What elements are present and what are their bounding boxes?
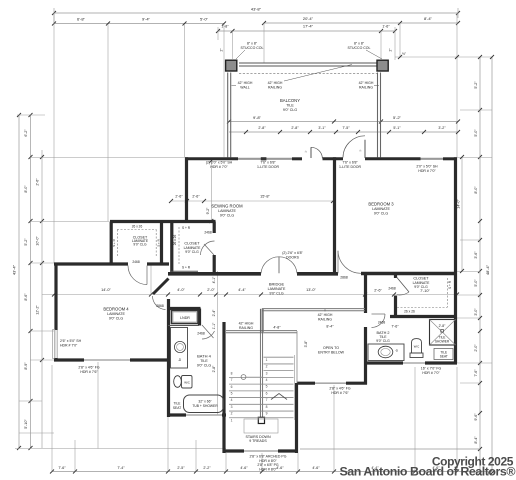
svg-text:HDR # 7'0": HDR # 7'0" <box>418 169 436 173</box>
svg-text:9: 9 <box>266 412 268 416</box>
railing A bridge east-west y=309.5 <box>262 308 365 310</box>
balcony door bedroom3 leaf+arc <box>364 140 366 158</box>
svg-text:2: 2 <box>231 412 233 416</box>
dim: top tier2 left 6'-8" 9'-4" 5'-0" <box>54 23 224 25</box>
svg-text:LAMINATE: LAMINATE <box>268 287 286 291</box>
svg-text:2'-6": 2'-6" <box>36 178 40 186</box>
laundry east wall <box>198 309 201 326</box>
svg-text:5'-0": 5'-0" <box>474 129 478 137</box>
stair west / bath4 east wall <box>222 322 225 453</box>
svg-text:2'-0": 2'-0" <box>474 344 478 352</box>
svg-text:W/C: W/C <box>414 345 419 349</box>
closet door arc 2468 <box>397 277 410 292</box>
svg-text:TILE: TILE <box>200 359 208 363</box>
svg-text:2468: 2468 <box>378 321 386 325</box>
svg-text:9'-8": 9'-8" <box>253 115 262 120</box>
svg-text:1: 1 <box>266 358 268 362</box>
bottom extension lines <box>51 365 53 472</box>
svg-text:1-LITE DOOR: 1-LITE DOOR <box>257 165 279 169</box>
svg-text:WALL: WALL <box>240 85 249 89</box>
bedroom3 closet rod dashed <box>397 307 447 309</box>
extension lines from top dims <box>107 24 109 221</box>
svg-text:1'-6": 1'-6" <box>382 25 390 29</box>
svg-text:8: 8 <box>231 371 233 375</box>
svg-text:S + R: S + R <box>182 266 191 270</box>
dim: balcony lower tier 9'-8" 5'-2" y=121.5 <box>229 121 458 123</box>
svg-text:14'-0": 14'-0" <box>101 288 111 292</box>
svg-text:HDR # 7'6": HDR # 7'6" <box>331 391 349 395</box>
dim: balcony 1'-8" 17'-4" 1'-6" <box>218 30 395 32</box>
sewing closet door arc <box>201 241 215 255</box>
svg-text:9'0" CLG: 9'0" CLG <box>374 211 389 215</box>
svg-text:3'-6": 3'-6" <box>474 251 478 259</box>
svg-text:BEDROOM 3: BEDROOM 3 <box>368 202 394 207</box>
svg-text:HDR # 8'0": HDR # 8'0" <box>259 467 277 471</box>
bath2 door arc 2468 <box>372 314 386 328</box>
svg-text:3'-8": 3'-8" <box>304 340 308 348</box>
window in y=383 wall <box>315 382 346 384</box>
bedroom4 south window <box>84 359 130 361</box>
balcony railing lines <box>239 62 377 64</box>
svg-text:2'-6": 2'-6" <box>374 289 382 293</box>
interior dim line sewing y=201 <box>171 200 333 202</box>
svg-text:2468: 2468 <box>388 287 396 291</box>
svg-text:HDR # 7'0": HDR # 7'0" <box>60 343 78 347</box>
stucco column right <box>377 60 388 71</box>
balcony side wall right <box>377 73 379 158</box>
svg-text:12'-2": 12'-2" <box>36 305 40 315</box>
svg-text:7'-6": 7'-6" <box>58 466 66 470</box>
svg-text:9'-6": 9'-6" <box>474 413 478 421</box>
interior dim line y=294.5 <box>42 294 457 296</box>
svg-text:SEAT: SEAT <box>440 355 448 359</box>
svg-text:9'0" CLG: 9'0" CLG <box>269 291 284 295</box>
left closet east wall <box>160 223 163 263</box>
house east wall <box>454 157 457 363</box>
svg-text:S + R: S + R <box>112 238 116 246</box>
svg-text:9'-2": 9'-2" <box>206 207 210 215</box>
railing B vertical x=262 <box>260 309 262 332</box>
svg-text:32" x 66": 32" x 66" <box>198 399 212 403</box>
svg-text:BATH 4: BATH 4 <box>197 354 211 359</box>
svg-text:2'-6": 2'-6" <box>192 195 200 199</box>
bottom dim tier <box>52 471 492 473</box>
svg-text:2'-8": 2'-8" <box>439 324 447 328</box>
svg-text:1: 1 <box>231 418 233 422</box>
balcony side wall left <box>227 73 229 158</box>
svg-text:8'-4": 8'-4" <box>326 325 334 329</box>
svg-text:SHOWER: SHOWER <box>435 339 450 343</box>
svg-text:26 x 26: 26 x 26 <box>132 224 143 228</box>
svg-text:SEWING ROOM: SEWING ROOM <box>211 204 243 209</box>
svg-text:2'-2": 2'-2" <box>203 466 211 470</box>
svg-text:STUCCO COL: STUCCO COL <box>241 46 264 50</box>
svg-text:15'-8": 15'-8" <box>260 195 270 199</box>
svg-text:1'-8": 1'-8" <box>221 25 229 29</box>
svg-text:7'-6": 7'-6" <box>474 369 478 377</box>
svg-text:8: 8 <box>266 405 268 409</box>
svg-text:7: 7 <box>231 378 233 382</box>
svg-text:9'0" CLG: 9'0" CLG <box>133 243 147 247</box>
svg-text:RAILING: RAILING <box>318 317 332 321</box>
right extension lines <box>457 157 492 159</box>
window bedroom3 top <box>421 158 444 160</box>
svg-text:LAMINATE: LAMINATE <box>372 207 390 211</box>
balcony door sewing room leaf+arc <box>310 147 312 158</box>
stair south wall <box>224 449 244 452</box>
svg-text:9'0" CLG: 9'0" CLG <box>220 213 235 217</box>
svg-text:8'-0": 8'-0" <box>24 185 28 193</box>
svg-text:SEAT: SEAT <box>173 406 181 410</box>
stair direction chevron <box>271 394 287 400</box>
svg-text:2'-0": 2'-0" <box>207 288 215 292</box>
bedroom3 door arc 2868 <box>338 251 361 273</box>
svg-text:1'-1": 1'-1" <box>212 322 216 330</box>
entry east wall x=365.5 <box>364 273 367 314</box>
svg-text:LAMINATE: LAMINATE <box>107 312 125 316</box>
svg-text:5'-2": 5'-2" <box>393 115 402 120</box>
bath2 vanity <box>368 344 404 361</box>
svg-text:6: 6 <box>231 385 233 389</box>
svg-text:4'-1": 4'-1" <box>212 276 216 284</box>
bath4 vanity <box>171 328 188 369</box>
svg-text:8'-9": 8'-9" <box>24 362 28 370</box>
svg-text:2468: 2468 <box>204 231 212 235</box>
svg-text:3'-1": 3'-1" <box>318 126 326 130</box>
svg-text:2868: 2868 <box>156 304 164 308</box>
left closet door arc 2468 <box>128 266 147 285</box>
bedroom4 west window <box>54 330 56 358</box>
bedroom3/sewing dividing wall <box>333 157 336 274</box>
svg-text:6: 6 <box>266 391 268 395</box>
svg-text:4'-0": 4'-0" <box>177 288 185 292</box>
svg-text:HDR # 7'0": HDR # 7'0" <box>422 371 440 375</box>
bath4 south window <box>186 414 222 416</box>
dim bedroom3 right 14'-0" <box>461 157 463 271</box>
svg-text:5: 5 <box>266 385 268 389</box>
bedroom4 north wall y=262.5 <box>54 262 128 265</box>
closet west wall x=395.5 <box>394 273 397 279</box>
svg-text:BALCONY: BALCONY <box>280 98 300 103</box>
bath2 toilet <box>412 339 422 353</box>
svg-text:HDR # 7'6": HDR # 7'6" <box>80 370 98 374</box>
svg-text:13'-0": 13'-0" <box>306 288 316 292</box>
sewing closet rod dashed <box>178 227 180 265</box>
vertical extension x=217.5 with small dims <box>217 271 219 415</box>
bath2 south wall y=363 <box>367 361 403 364</box>
bath2 sink <box>378 346 393 358</box>
svg-text:TILE: TILE <box>286 104 294 108</box>
bedroom3 south wall / closet north <box>361 272 457 276</box>
left extension lines <box>17 114 45 116</box>
svg-text:2'-8": 2'-8" <box>291 126 299 130</box>
svg-text:2'-8": 2'-8" <box>258 126 266 130</box>
bath4 south wall <box>167 413 186 416</box>
bath4 toilet <box>174 376 182 388</box>
svg-text:TUB + SHOWER: TUB + SHOWER <box>192 404 218 408</box>
svg-text:3: 3 <box>266 371 268 375</box>
svg-text:17'-4": 17'-4" <box>303 24 314 29</box>
svg-text:9'0" CLG: 9'0" CLG <box>414 285 428 289</box>
svg-text:4: 4 <box>266 378 268 382</box>
svg-text:2468: 2468 <box>132 260 140 264</box>
svg-text:4: 4 <box>231 398 233 402</box>
svg-text:43'-8": 43'-8" <box>251 7 262 12</box>
bath2 shower <box>430 320 456 346</box>
svg-text:HDR # 7'0": HDR # 7'0" <box>210 165 228 169</box>
bedroom4 south wall <box>54 358 84 361</box>
svg-text:2'-8": 2'-8" <box>212 365 216 373</box>
closet top wall y=221.5 <box>110 220 216 223</box>
top wall of house y=158.8 <box>185 157 238 160</box>
svg-text:5'-0": 5'-0" <box>200 17 209 22</box>
svg-text:½": ½" <box>402 52 406 56</box>
svg-text:7'-10": 7'-10" <box>420 289 430 293</box>
svg-text:8'-6": 8'-6" <box>24 293 28 301</box>
svg-text:7: 7 <box>266 398 268 402</box>
stair marker circle <box>241 375 246 380</box>
stair label box <box>244 419 278 433</box>
svg-text:RAILING: RAILING <box>268 85 282 89</box>
svg-text:5'-0": 5'-0" <box>474 279 478 287</box>
sewing closet east wall <box>213 222 216 234</box>
svg-text:9 TREADS: 9 TREADS <box>249 439 267 443</box>
svg-text:S + R: S + R <box>157 238 161 246</box>
svg-text:3'-0": 3'-0" <box>474 308 478 316</box>
svg-text:RAILING: RAILING <box>359 85 373 89</box>
left dim tiers <box>18 115 20 448</box>
stair treads <box>264 356 294 358</box>
svg-text:8'-4": 8'-4" <box>474 436 478 444</box>
svg-text:9'0" CLG: 9'0" CLG <box>283 108 298 112</box>
svg-text:7'-4": 7'-4" <box>117 466 125 470</box>
svg-text:BRIDGE: BRIDGE <box>269 282 285 287</box>
svg-text:2'-4": 2'-4" <box>212 309 216 317</box>
svg-text:5: 5 <box>231 391 233 395</box>
svg-text:3: 3 <box>231 405 233 409</box>
left closet west wall <box>110 222 113 266</box>
sewing closet west wall <box>170 223 173 272</box>
bath4 tub <box>184 395 224 413</box>
svg-text:6'-2": 6'-2" <box>24 129 28 137</box>
svg-text:RAILING: RAILING <box>239 326 253 330</box>
svg-text:4'-8": 4'-8" <box>273 326 281 330</box>
svg-text:S + R: S + R <box>448 280 452 289</box>
svg-text:9'0" CLG: 9'0" CLG <box>197 363 212 367</box>
svg-text:9'0" CLG: 9'0" CLG <box>185 250 199 254</box>
svg-text:20'-4": 20'-4" <box>303 16 314 21</box>
svg-text:4'-4": 4'-4" <box>238 288 246 292</box>
svg-text:LNDR: LNDR <box>180 316 190 320</box>
stair void line x=297 thin <box>296 331 298 383</box>
wall y=270.5 bridge north / sewing south <box>168 272 261 276</box>
railing C bridge south y=331.5 <box>226 330 297 332</box>
window sewing room top <box>238 158 292 160</box>
svg-text:LAMINATE: LAMINATE <box>218 209 236 213</box>
bedroom4 west wall <box>54 263 57 331</box>
svg-text:S + R: S + R <box>182 226 191 230</box>
svg-text:2468: 2468 <box>197 332 205 336</box>
bath4 door arc 2468 <box>202 325 214 338</box>
svg-text:9'0" CLG: 9'0" CLG <box>109 316 124 320</box>
bath4 sink <box>174 341 185 352</box>
svg-text:San Antonio Board of Realtors®: San Antonio Board of Realtors® <box>339 465 515 479</box>
svg-text:7'-5": 7'-5" <box>342 126 350 130</box>
left closet rod dashed + label <box>117 229 157 231</box>
svg-text:8'-4": 8'-4" <box>424 16 433 21</box>
stair stringer line <box>294 355 296 420</box>
dim tier y=132 window/door positions <box>229 131 458 133</box>
svg-text:8'-0": 8'-0" <box>474 186 478 194</box>
laundry appliance box LNDR <box>172 311 199 324</box>
sewing room double doors <box>261 257 279 274</box>
svg-text:43'-4": 43'-4" <box>12 264 17 275</box>
dim: top tier2 right 20'-4" 8'-4" <box>264 22 458 24</box>
stair center handrail <box>259 309 261 419</box>
bath4/laundry west wall <box>167 299 170 417</box>
bedroom4 corner door arc 2868 <box>153 296 166 310</box>
svg-text:26 x 26: 26 x 26 <box>404 310 415 314</box>
svg-text:4'-6": 4'-6" <box>240 466 248 470</box>
svg-text:10'-0": 10'-0" <box>36 236 40 246</box>
stucco column left <box>226 60 237 71</box>
svg-text:2: 2 <box>266 365 268 369</box>
svg-text:W/C: W/C <box>184 381 190 385</box>
svg-text:5'-2": 5'-2" <box>474 81 478 89</box>
dim: top overall 43'-8" <box>54 12 458 14</box>
svg-text:STUCCO COL: STUCCO COL <box>348 46 371 50</box>
stair south window arched PG <box>244 450 278 452</box>
svg-text:DOORS: DOORS <box>286 256 300 260</box>
svg-text:BEDROOM 4: BEDROOM 4 <box>103 307 129 312</box>
laundry south line <box>168 325 199 327</box>
closet south / bath2 north wall <box>390 315 457 318</box>
svg-text:48'-4": 48'-4" <box>485 264 490 275</box>
bath2 tile seat <box>434 349 453 360</box>
svg-text:2'-5": 2'-5" <box>177 466 185 470</box>
svg-text:5'-1": 5'-1" <box>393 126 401 130</box>
stair newel post <box>258 417 264 423</box>
laundry north wall <box>167 307 201 310</box>
svg-text:26 x 26: 26 x 26 <box>173 235 177 246</box>
sewing room west wall <box>185 157 188 221</box>
right dim tiers <box>479 57 481 473</box>
dim line right of balcony column y=57 <box>395 56 492 58</box>
svg-text:2'-6": 2'-6" <box>175 195 183 199</box>
svg-text:9'0" CLG: 9'0" CLG <box>376 339 390 343</box>
svg-text:2868: 2868 <box>340 276 348 280</box>
stair east wall <box>295 383 298 453</box>
svg-text:5'-10": 5'-10" <box>24 419 28 429</box>
svg-text:3'-2": 3'-2" <box>438 126 446 130</box>
svg-text:OPEN TO: OPEN TO <box>323 346 339 350</box>
svg-text:ENTRY BELOW: ENTRY BELOW <box>318 351 345 355</box>
svg-text:7'-6": 7'-6" <box>391 325 399 329</box>
wall y=383 entry south <box>297 382 315 385</box>
bath2 south window <box>403 362 425 364</box>
svg-text:1-LITE DOOR: 1-LITE DOOR <box>339 165 361 169</box>
svg-text:5'-2": 5'-2" <box>24 238 28 246</box>
diagonal wall bedroom4 NE corner <box>153 279 169 295</box>
svg-text:4'-6": 4'-6" <box>312 466 320 470</box>
svg-text:9'-4": 9'-4" <box>142 17 151 22</box>
svg-text:6'-8": 6'-8" <box>77 17 86 22</box>
